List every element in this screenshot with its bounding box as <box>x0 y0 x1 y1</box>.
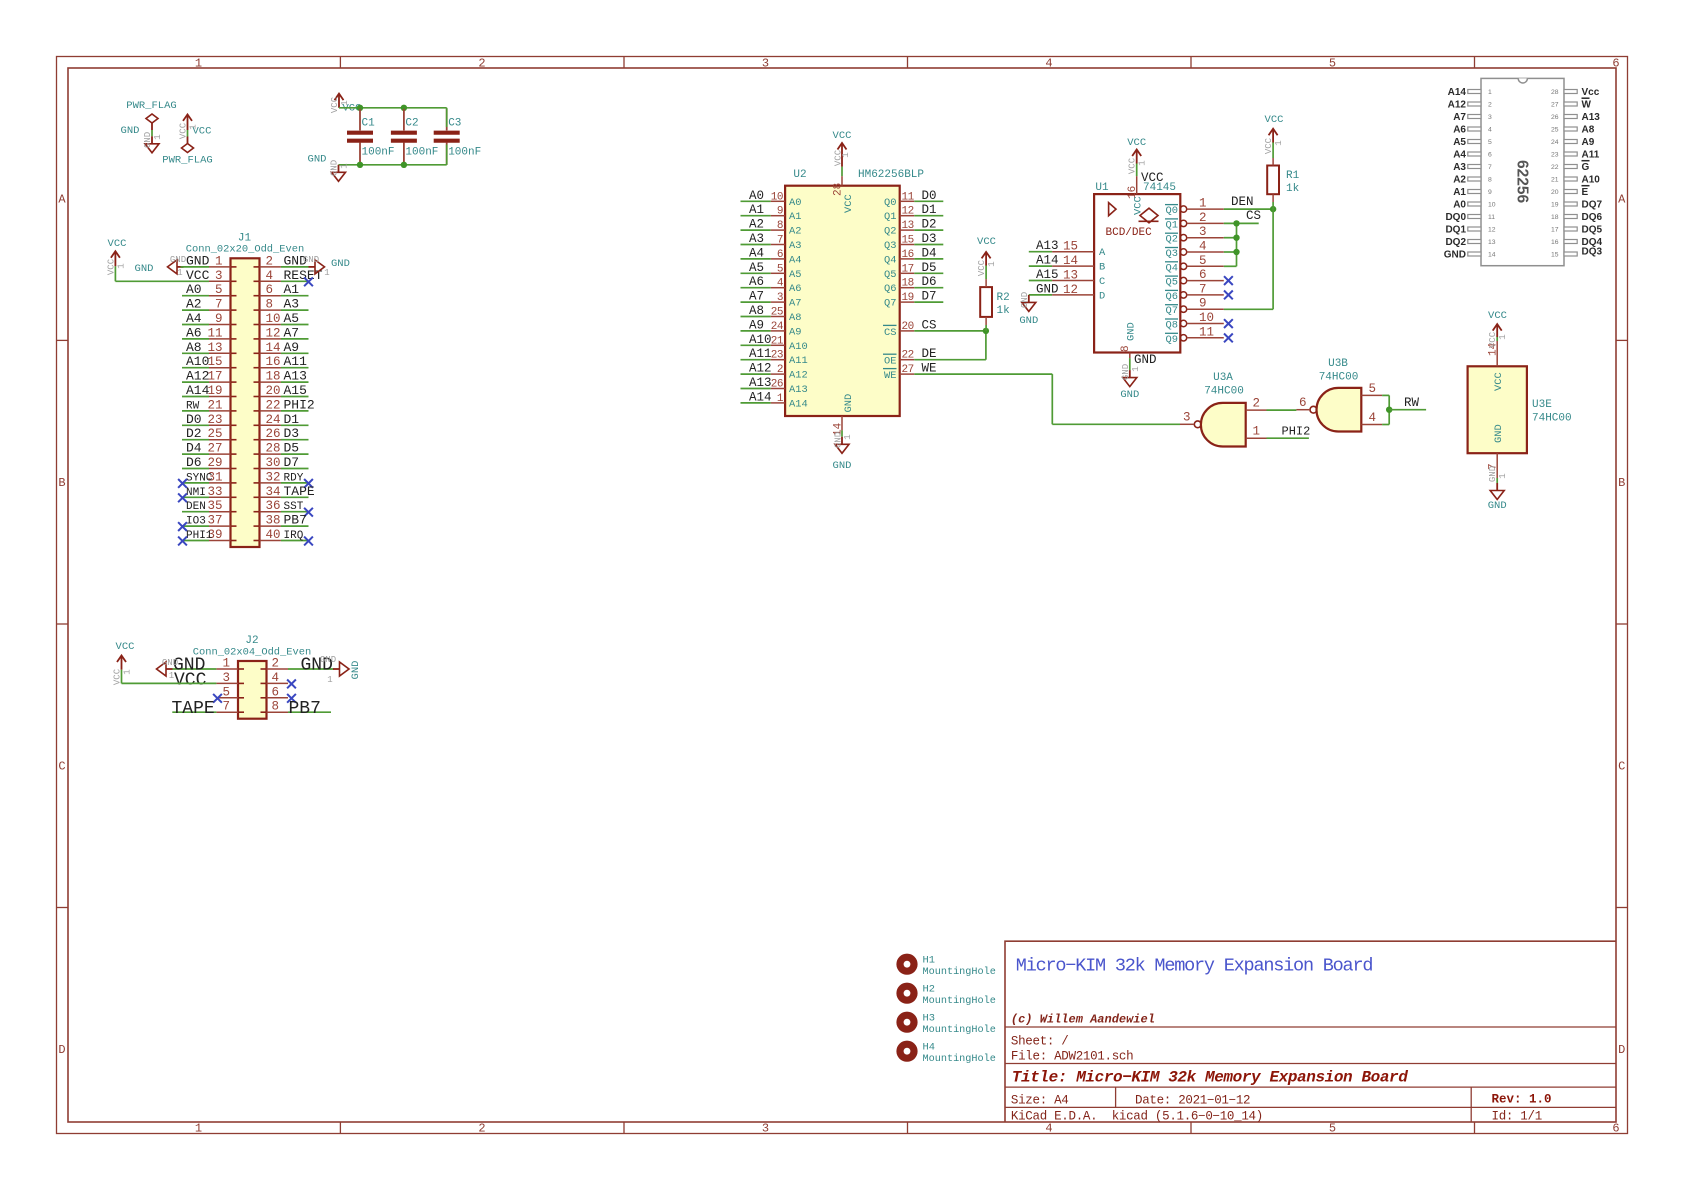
svg-text:5: 5 <box>222 685 230 699</box>
J1 pin 26 (D3) <box>260 426 309 441</box>
wire R1 to Q7 <box>1224 209 1273 309</box>
svg-text:A9: A9 <box>789 326 801 338</box>
svg-text:Q5: Q5 <box>884 269 896 281</box>
svg-text:D2: D2 <box>186 426 202 441</box>
svg-text:22: 22 <box>1551 164 1559 171</box>
svg-text:WE: WE <box>884 370 896 382</box>
VCC power symbol above U1 <box>1127 137 1147 174</box>
svg-text:15: 15 <box>902 235 914 247</box>
svg-text:7: 7 <box>1199 282 1207 296</box>
J1 pin 15 (A10) <box>182 354 231 369</box>
svg-text:1: 1 <box>1199 197 1207 211</box>
memory U2 HM62256BLP body <box>785 169 924 416</box>
svg-text:A13: A13 <box>749 376 772 390</box>
svg-text:PWR_FLAG: PWR_FLAG <box>162 155 212 167</box>
svg-text:A12: A12 <box>1448 100 1467 111</box>
J1 pin 34 (TAPE) <box>260 484 315 499</box>
J1 pin 32 (RDY) <box>260 470 313 487</box>
svg-text:GND: GND <box>1493 424 1505 443</box>
J1 pin 3 (VCC) <box>186 268 231 283</box>
svg-text:GND: GND <box>308 154 327 166</box>
VCC power symbol at J1 pin 3 <box>106 238 126 275</box>
svg-text:VCC: VCC <box>1493 372 1505 391</box>
svg-text:1: 1 <box>195 1122 202 1136</box>
svg-text:A13: A13 <box>1582 112 1601 123</box>
svg-text:VCC: VCC <box>1488 310 1507 322</box>
svg-text:Id: 1/1: Id: 1/1 <box>1492 1110 1542 1124</box>
svg-text:D3: D3 <box>284 426 300 441</box>
svg-text:A11: A11 <box>284 354 308 369</box>
svg-text:VCC: VCC <box>1127 137 1146 149</box>
svg-text:Q1: Q1 <box>884 211 896 223</box>
svg-text:TAPE: TAPE <box>284 484 315 499</box>
U3B pin 5 (input) <box>1361 382 1382 396</box>
svg-text:MountingHole: MountingHole <box>923 1053 996 1065</box>
svg-text:15: 15 <box>207 355 222 369</box>
svg-text:VCC: VCC <box>108 238 127 250</box>
svg-text:18: 18 <box>902 278 914 290</box>
svg-text:7: 7 <box>777 235 783 247</box>
svg-text:20: 20 <box>902 321 914 333</box>
svg-text:1k: 1k <box>997 305 1011 317</box>
svg-text:CS: CS <box>1246 209 1261 223</box>
svg-text:2: 2 <box>777 364 783 376</box>
svg-text:A2: A2 <box>186 297 202 312</box>
svg-text:5: 5 <box>1329 1122 1336 1136</box>
svg-text:GND: GND <box>170 255 186 265</box>
svg-text:1: 1 <box>222 657 230 671</box>
svg-text:VCC: VCC <box>116 641 135 653</box>
svg-text:8: 8 <box>777 220 783 232</box>
svg-text:6: 6 <box>777 249 783 261</box>
svg-text:J2: J2 <box>245 635 258 647</box>
svg-text:1: 1 <box>189 124 199 129</box>
J1 pin 20 (A15) <box>260 383 309 398</box>
svg-text:B: B <box>58 476 65 490</box>
J2 pin 3 <box>174 670 238 690</box>
svg-text:9: 9 <box>215 312 223 326</box>
svg-text:Size: A4: Size: A4 <box>1011 1094 1069 1108</box>
VCC power symbol above U3E <box>1488 310 1507 337</box>
junction GND rail C1 <box>357 162 363 168</box>
svg-text:SYNC: SYNC <box>186 472 213 484</box>
svg-text:24: 24 <box>771 321 784 333</box>
svg-text:1: 1 <box>843 434 853 439</box>
J1 pin 28 (D5) <box>260 441 309 456</box>
svg-text:H3: H3 <box>923 1013 935 1025</box>
svg-text:D6: D6 <box>922 275 937 289</box>
svg-text:DQ0: DQ0 <box>1445 212 1466 223</box>
svg-text:D0: D0 <box>186 412 202 427</box>
svg-text:A11: A11 <box>1582 150 1600 161</box>
svg-text:74HC00: 74HC00 <box>1532 413 1572 425</box>
svg-text:1: 1 <box>340 100 350 105</box>
svg-text:Q6: Q6 <box>884 283 896 295</box>
svg-text:2: 2 <box>1199 211 1207 225</box>
J1 pin 40 (IRQ) <box>260 528 313 545</box>
svg-text:A2: A2 <box>749 218 764 232</box>
svg-text:21: 21 <box>771 335 784 347</box>
svg-text:GND: GND <box>1036 282 1059 296</box>
svg-text:A2: A2 <box>789 226 801 238</box>
wire RW net <box>1389 396 1426 410</box>
svg-text:20: 20 <box>1551 189 1559 196</box>
svg-text:27: 27 <box>902 364 914 376</box>
svg-text:A14: A14 <box>789 398 808 410</box>
mounting hole H1 <box>896 954 995 979</box>
svg-text:35: 35 <box>207 499 222 513</box>
svg-text:RW: RW <box>1404 396 1420 410</box>
svg-text:28: 28 <box>833 183 845 196</box>
svg-text:A4: A4 <box>749 246 764 260</box>
junction VCC rail C2 <box>401 105 407 111</box>
svg-text:IO3: IO3 <box>186 516 206 528</box>
wire U2 WE to U3A output <box>914 374 1180 424</box>
svg-text:GND: GND <box>843 394 855 413</box>
svg-text:VCC: VCC <box>1128 157 1138 174</box>
svg-text:28: 28 <box>1551 89 1559 96</box>
junction CS / R2 <box>983 328 989 334</box>
svg-text:U2: U2 <box>793 169 806 181</box>
ground symbol below U1 <box>1120 364 1140 401</box>
svg-text:11: 11 <box>207 326 222 340</box>
svg-text:Q4: Q4 <box>884 254 896 266</box>
svg-text:1: 1 <box>215 254 223 268</box>
no-connect U1 pin 6 <box>1224 276 1233 285</box>
svg-text:OE: OE <box>884 356 896 368</box>
svg-text:A15: A15 <box>284 383 307 398</box>
ground symbol at J2 pin 2 <box>320 655 362 685</box>
U2 pin 8 (A2) <box>741 218 802 238</box>
U1 pin 3 (Q2) <box>1165 225 1224 246</box>
svg-text:A8: A8 <box>749 304 764 318</box>
svg-text:A9: A9 <box>1582 137 1595 148</box>
svg-text:12: 12 <box>266 326 281 340</box>
U2 pin 25 (A8) <box>741 304 802 324</box>
wire VCC rail <box>339 107 447 109</box>
svg-text:24: 24 <box>266 413 281 427</box>
svg-text:20: 20 <box>266 384 281 398</box>
power flag PF1 on GND <box>126 100 176 130</box>
J1 pin 38 (PB7) <box>260 513 309 528</box>
U1 pin 15 (A) <box>1029 239 1106 259</box>
svg-text:A2: A2 <box>1453 175 1466 186</box>
svg-text:13: 13 <box>902 220 914 232</box>
svg-text:7: 7 <box>1488 164 1492 171</box>
svg-text:A12: A12 <box>789 370 808 382</box>
svg-text:G: G <box>1582 162 1590 173</box>
svg-text:8: 8 <box>1120 345 1132 352</box>
VCC power symbol above capacitor rail <box>330 94 361 115</box>
svg-text:D6: D6 <box>186 455 202 470</box>
svg-text:A5: A5 <box>789 269 801 281</box>
svg-text:Q5: Q5 <box>1166 277 1178 289</box>
svg-text:D5: D5 <box>284 441 300 456</box>
svg-text:100nF: 100nF <box>448 147 481 159</box>
J1 pin 11 (A6) <box>182 325 231 340</box>
svg-text:2: 2 <box>478 1122 485 1136</box>
U2 pin 15 (Q3) <box>884 232 943 252</box>
J1 pin 19 (A14) <box>182 383 231 398</box>
svg-text:RW: RW <box>186 400 200 412</box>
svg-text:A9: A9 <box>284 340 300 355</box>
svg-text:9: 9 <box>777 206 783 218</box>
U2 pin 18 (Q6) <box>884 275 943 295</box>
svg-text:A15: A15 <box>1036 268 1059 282</box>
svg-text:Q9: Q9 <box>1166 334 1178 346</box>
svg-text:H1: H1 <box>923 955 935 967</box>
svg-text:D: D <box>1099 290 1105 302</box>
svg-text:A7: A7 <box>1453 112 1466 123</box>
U1 pin 1 (Q0) <box>1165 197 1224 218</box>
J1 pin 30 (D7) <box>260 455 309 470</box>
svg-text:(c) Willem Aandewiel: (c) Willem Aandewiel <box>1011 1013 1155 1027</box>
svg-text:100nF: 100nF <box>362 147 395 159</box>
J1 pin 8 (A3) <box>260 297 309 312</box>
U3B pin 4 (input) <box>1361 411 1382 425</box>
svg-text:A14: A14 <box>1448 87 1467 98</box>
svg-text:A14: A14 <box>1036 254 1059 268</box>
no-connect U1 pin 11 <box>1224 334 1233 343</box>
svg-text:38: 38 <box>266 514 281 528</box>
U2 pin 1 (A14) <box>741 390 808 410</box>
svg-text:1: 1 <box>153 134 163 139</box>
J1 pin 5 (A0) <box>182 282 231 297</box>
power unit U3E 74HC00 <box>1468 366 1572 453</box>
wire U2 CS net <box>914 331 986 360</box>
svg-text:Q7: Q7 <box>884 298 896 310</box>
svg-text:Q8: Q8 <box>1166 320 1178 332</box>
U2 pin 13 (Q2) <box>884 218 943 238</box>
svg-text:PHI2: PHI2 <box>1282 425 1311 439</box>
svg-text:D: D <box>1618 1043 1625 1057</box>
svg-text:A9: A9 <box>749 318 764 332</box>
svg-text:SST: SST <box>284 501 304 513</box>
U2 pin 2 (A12) <box>741 362 808 382</box>
svg-text:10: 10 <box>771 191 783 203</box>
svg-text:10: 10 <box>266 312 281 326</box>
U2 pin 7 (A3) <box>741 232 802 252</box>
svg-text:GND: GND <box>121 125 140 137</box>
wire J1 pin1 to GND <box>181 266 184 268</box>
svg-text:C2: C2 <box>405 118 418 130</box>
svg-text:E: E <box>1582 187 1589 198</box>
U1 pin 13 (C) <box>1029 268 1105 288</box>
svg-text:30: 30 <box>266 456 281 470</box>
svg-text:D: D <box>58 1043 65 1057</box>
svg-text:32: 32 <box>266 470 281 484</box>
J1 pin 18 (A13) <box>260 369 309 384</box>
U2 pin 16 (Q4) <box>884 246 943 266</box>
svg-text:Date: 2021−01−12: Date: 2021−01−12 <box>1135 1094 1250 1108</box>
svg-text:GND: GND <box>350 661 362 680</box>
svg-text:5: 5 <box>1329 57 1336 71</box>
svg-text:R1: R1 <box>1286 170 1300 182</box>
U3A pin 2 (input) <box>1246 397 1267 411</box>
svg-text:1k: 1k <box>1286 183 1300 195</box>
svg-text:GND: GND <box>162 658 178 668</box>
svg-text:A1: A1 <box>749 203 764 217</box>
svg-text:13: 13 <box>1488 239 1496 246</box>
62256 DIP-28 pinout illustration <box>1444 78 1603 265</box>
svg-text:A12: A12 <box>186 369 209 384</box>
svg-text:VCC: VCC <box>330 96 340 113</box>
J1 pin 23 (D0) <box>182 412 231 427</box>
U2 pin 12 (Q1) <box>884 203 943 223</box>
U2 pin 22 (OE) <box>883 347 937 368</box>
svg-text:1: 1 <box>1131 366 1141 371</box>
svg-text:6: 6 <box>1299 396 1307 410</box>
svg-text:PWR_FLAG: PWR_FLAG <box>126 100 176 112</box>
U1 pin 16 (VCC) top <box>1127 164 1164 216</box>
svg-text:DQ5: DQ5 <box>1582 225 1603 236</box>
J1 pin 36 (SST) <box>260 499 313 516</box>
svg-text:21: 21 <box>1551 177 1559 184</box>
svg-text:17: 17 <box>902 263 914 275</box>
connector J1 Conn_02x20_Odd_Even body <box>186 233 304 548</box>
svg-text:74HC00: 74HC00 <box>1204 386 1244 398</box>
svg-text:5: 5 <box>1488 139 1492 146</box>
svg-text:3: 3 <box>1183 411 1191 425</box>
svg-text:1: 1 <box>177 268 182 278</box>
svg-text:10: 10 <box>1488 202 1496 209</box>
svg-text:VCC: VCC <box>1133 196 1145 215</box>
svg-text:A13: A13 <box>789 384 808 396</box>
svg-text:1: 1 <box>123 669 133 674</box>
ground symbol at U1 pin 12 <box>1019 292 1038 327</box>
svg-text:1: 1 <box>340 163 350 168</box>
svg-text:Q0: Q0 <box>884 197 896 209</box>
svg-text:C: C <box>58 760 65 774</box>
svg-text:GND: GND <box>1488 500 1507 512</box>
svg-text:11: 11 <box>1488 214 1495 221</box>
J2 pin 2 <box>267 656 334 676</box>
svg-text:A10: A10 <box>1582 175 1601 186</box>
svg-text:1: 1 <box>1253 425 1261 439</box>
junction CS Q3 <box>1233 249 1239 255</box>
svg-text:1: 1 <box>987 261 997 266</box>
J1 pin 6 (A1) <box>260 282 309 297</box>
svg-text:Q4: Q4 <box>1166 262 1178 274</box>
svg-text:PHI2: PHI2 <box>284 397 315 412</box>
svg-text:2: 2 <box>1488 102 1492 109</box>
svg-text:GND: GND <box>1020 292 1030 308</box>
svg-text:U3E: U3E <box>1532 399 1552 411</box>
svg-text:1: 1 <box>169 671 174 681</box>
svg-text:14: 14 <box>1488 252 1496 259</box>
svg-text:TAPE: TAPE <box>172 699 215 719</box>
svg-text:1: 1 <box>324 268 329 278</box>
svg-text:5: 5 <box>777 263 783 275</box>
svg-text:A14: A14 <box>749 390 772 404</box>
U3E pin 14 (VCC) top <box>1487 331 1508 366</box>
U2 pin 27 (WE) <box>883 362 937 383</box>
J1 pin 13 (A8) <box>182 340 231 355</box>
ground symbol at J2 pin 1 <box>157 658 179 681</box>
svg-text:File: ADW2101.sch: File: ADW2101.sch <box>1011 1050 1133 1064</box>
svg-text:Q0: Q0 <box>1166 205 1178 217</box>
svg-text:DEN: DEN <box>186 501 206 513</box>
svg-text:CS: CS <box>884 327 896 339</box>
svg-text:Rev: 1.0: Rev: 1.0 <box>1492 1093 1552 1107</box>
svg-text:Q1: Q1 <box>1166 219 1178 231</box>
svg-text:11: 11 <box>902 191 915 203</box>
svg-text:VCC: VCC <box>843 194 855 213</box>
svg-text:B: B <box>1618 476 1625 490</box>
VCC power symbol above U2 <box>833 130 852 167</box>
U1 pin 12 (D) <box>1029 282 1105 302</box>
svg-text:1: 1 <box>1274 140 1284 145</box>
svg-text:17: 17 <box>1551 227 1559 234</box>
J2 pin 1 <box>173 656 239 676</box>
svg-text:D4: D4 <box>922 246 937 260</box>
svg-text:U3B: U3B <box>1328 358 1348 370</box>
U3A pin 3 (output) <box>1180 411 1194 425</box>
svg-text:Q2: Q2 <box>884 226 896 238</box>
svg-text:VCC: VCC <box>1264 137 1274 154</box>
U2 pin 11 (Q0) <box>884 189 943 209</box>
svg-text:23: 23 <box>207 413 222 427</box>
ground symbol below U2 <box>833 432 853 472</box>
wire PHI2 on U3A pin 1 <box>1267 425 1311 439</box>
U1 pin 7 (Q6) <box>1165 282 1224 303</box>
svg-text:A6: A6 <box>749 275 764 289</box>
svg-text:Title: Micro−KIM 32k Memory Ex: Title: Micro−KIM 32k Memory Expansion Bo… <box>1012 1069 1408 1087</box>
ground symbol at J1 pin 2 <box>303 255 350 278</box>
J2 pin 5 <box>213 685 238 702</box>
svg-text:GND: GND <box>135 263 154 275</box>
J1 pin 4 (RESET) <box>260 268 323 286</box>
svg-text:GND: GND <box>186 253 210 268</box>
svg-text:4: 4 <box>1369 411 1377 425</box>
svg-text:36: 36 <box>266 499 281 513</box>
ground symbol at J1 pin 1 <box>135 255 187 278</box>
svg-text:MountingHole: MountingHole <box>923 966 996 978</box>
svg-text:27: 27 <box>207 442 222 456</box>
svg-text:5: 5 <box>1199 254 1207 268</box>
no-connect U1 pin 7 <box>1224 291 1233 300</box>
svg-text:D7: D7 <box>922 290 937 304</box>
svg-text:9: 9 <box>1199 297 1207 311</box>
svg-text:GND: GND <box>331 258 350 270</box>
wire GND rail <box>339 164 447 166</box>
junction U3B inputs <box>1386 407 1392 413</box>
svg-text:14: 14 <box>1063 254 1078 268</box>
svg-text:Vcc: Vcc <box>1582 87 1600 98</box>
J2 pin 6 <box>267 685 296 702</box>
mounting hole H4 <box>896 1041 995 1066</box>
svg-text:W: W <box>1582 100 1592 111</box>
U2 pin 6 (A4) <box>741 246 802 266</box>
svg-text:VCC: VCC <box>977 259 987 276</box>
svg-text:A1: A1 <box>284 282 300 297</box>
svg-text:D1: D1 <box>284 412 300 427</box>
svg-text:A7: A7 <box>284 325 300 340</box>
svg-text:6: 6 <box>1488 152 1492 159</box>
svg-text:6: 6 <box>1612 57 1619 71</box>
svg-text:A8: A8 <box>186 340 202 355</box>
svg-text:BCD/DEC: BCD/DEC <box>1106 227 1153 239</box>
J2 pin 4 <box>267 671 296 688</box>
svg-text:A1: A1 <box>789 211 801 223</box>
svg-text:100nF: 100nF <box>405 147 438 159</box>
svg-text:17: 17 <box>207 370 222 384</box>
svg-text:C3: C3 <box>448 118 461 130</box>
svg-text:GND: GND <box>834 432 844 448</box>
svg-text:13: 13 <box>207 341 222 355</box>
svg-text:1: 1 <box>1488 89 1492 96</box>
wire PWR_FLAG to GND <box>151 130 153 136</box>
